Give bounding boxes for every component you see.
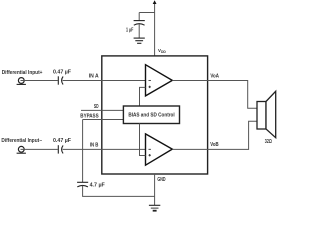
wire C4 to ground node bbox=[83, 186, 155, 197]
ground for C1 bbox=[134, 38, 145, 43]
svg-text:GND: GND bbox=[157, 177, 165, 183]
op-amp B minus mark bbox=[149, 148, 151, 150]
wire output VoB bbox=[172, 121, 257, 149]
capacitor C2 0.47 uF bbox=[58, 76, 63, 84]
svg-text:IN A: IN A bbox=[89, 74, 99, 80]
svg-text:VoB: VoB bbox=[210, 142, 219, 148]
wire SD bbox=[81, 109, 123, 111]
wire GND pin down bbox=[154, 174, 156, 205]
IC outline box bbox=[102, 56, 208, 174]
op-amp B bbox=[146, 134, 173, 165]
op-amp A minus mark bbox=[149, 79, 151, 81]
op-amp A plus mark bbox=[149, 86, 151, 88]
svg-text:Differential Input+: Differential Input+ bbox=[2, 70, 43, 76]
capacitor C1 1 uF bbox=[134, 21, 145, 26]
op-amp A bbox=[146, 65, 173, 96]
wire VDD supply vertical bbox=[154, 2, 156, 56]
wire op-amp B plus input to bias block bbox=[140, 124, 146, 156]
capacitor C3 0.47 uF bbox=[58, 145, 63, 153]
wire input A left segment bbox=[21, 80, 58, 82]
terminal Differential Input- bbox=[18, 146, 24, 152]
wire BYPASS bbox=[83, 119, 124, 121]
svg-text:0.47 µF: 0.47 µF bbox=[53, 138, 71, 144]
op-amp B plus mark bbox=[149, 154, 151, 156]
svg-text:1 µF: 1 µF bbox=[126, 27, 133, 33]
terminal Differential Input+ bbox=[18, 78, 24, 84]
wire input A right segment bbox=[63, 80, 146, 82]
wire input B left segment bbox=[21, 148, 58, 150]
wire output VoA bbox=[172, 81, 257, 109]
svg-text:BYPASS: BYPASS bbox=[80, 114, 99, 120]
BIAS and SD Control block bbox=[123, 106, 179, 124]
ground main bbox=[149, 205, 160, 210]
speaker bbox=[257, 91, 276, 137]
svg-text:IN B: IN B bbox=[90, 142, 99, 148]
wire branch to C1 bbox=[139, 12, 154, 14]
svg-text:Differential Input−: Differential Input− bbox=[1, 138, 42, 144]
power arrow VDD bbox=[153, 0, 157, 4]
svg-text:SD: SD bbox=[94, 104, 99, 110]
svg-text:BIAS and SD Control: BIAS and SD Control bbox=[128, 113, 175, 119]
wire BYPASS down to C4 bbox=[82, 120, 84, 183]
svg-text:32Ω: 32Ω bbox=[265, 139, 272, 145]
wire input B right segment bbox=[63, 148, 146, 150]
svg-text:VDD: VDD bbox=[158, 48, 166, 54]
capacitor C4 4.7 uF bbox=[77, 182, 88, 187]
svg-text:VoA: VoA bbox=[210, 74, 219, 80]
svg-text:0.47 µF: 0.47 µF bbox=[53, 70, 71, 76]
wire C1 to ground bbox=[138, 24, 140, 38]
wire op-amp A plus input to bias block bbox=[140, 87, 146, 106]
svg-text:4.7 µF: 4.7 µF bbox=[90, 183, 105, 189]
